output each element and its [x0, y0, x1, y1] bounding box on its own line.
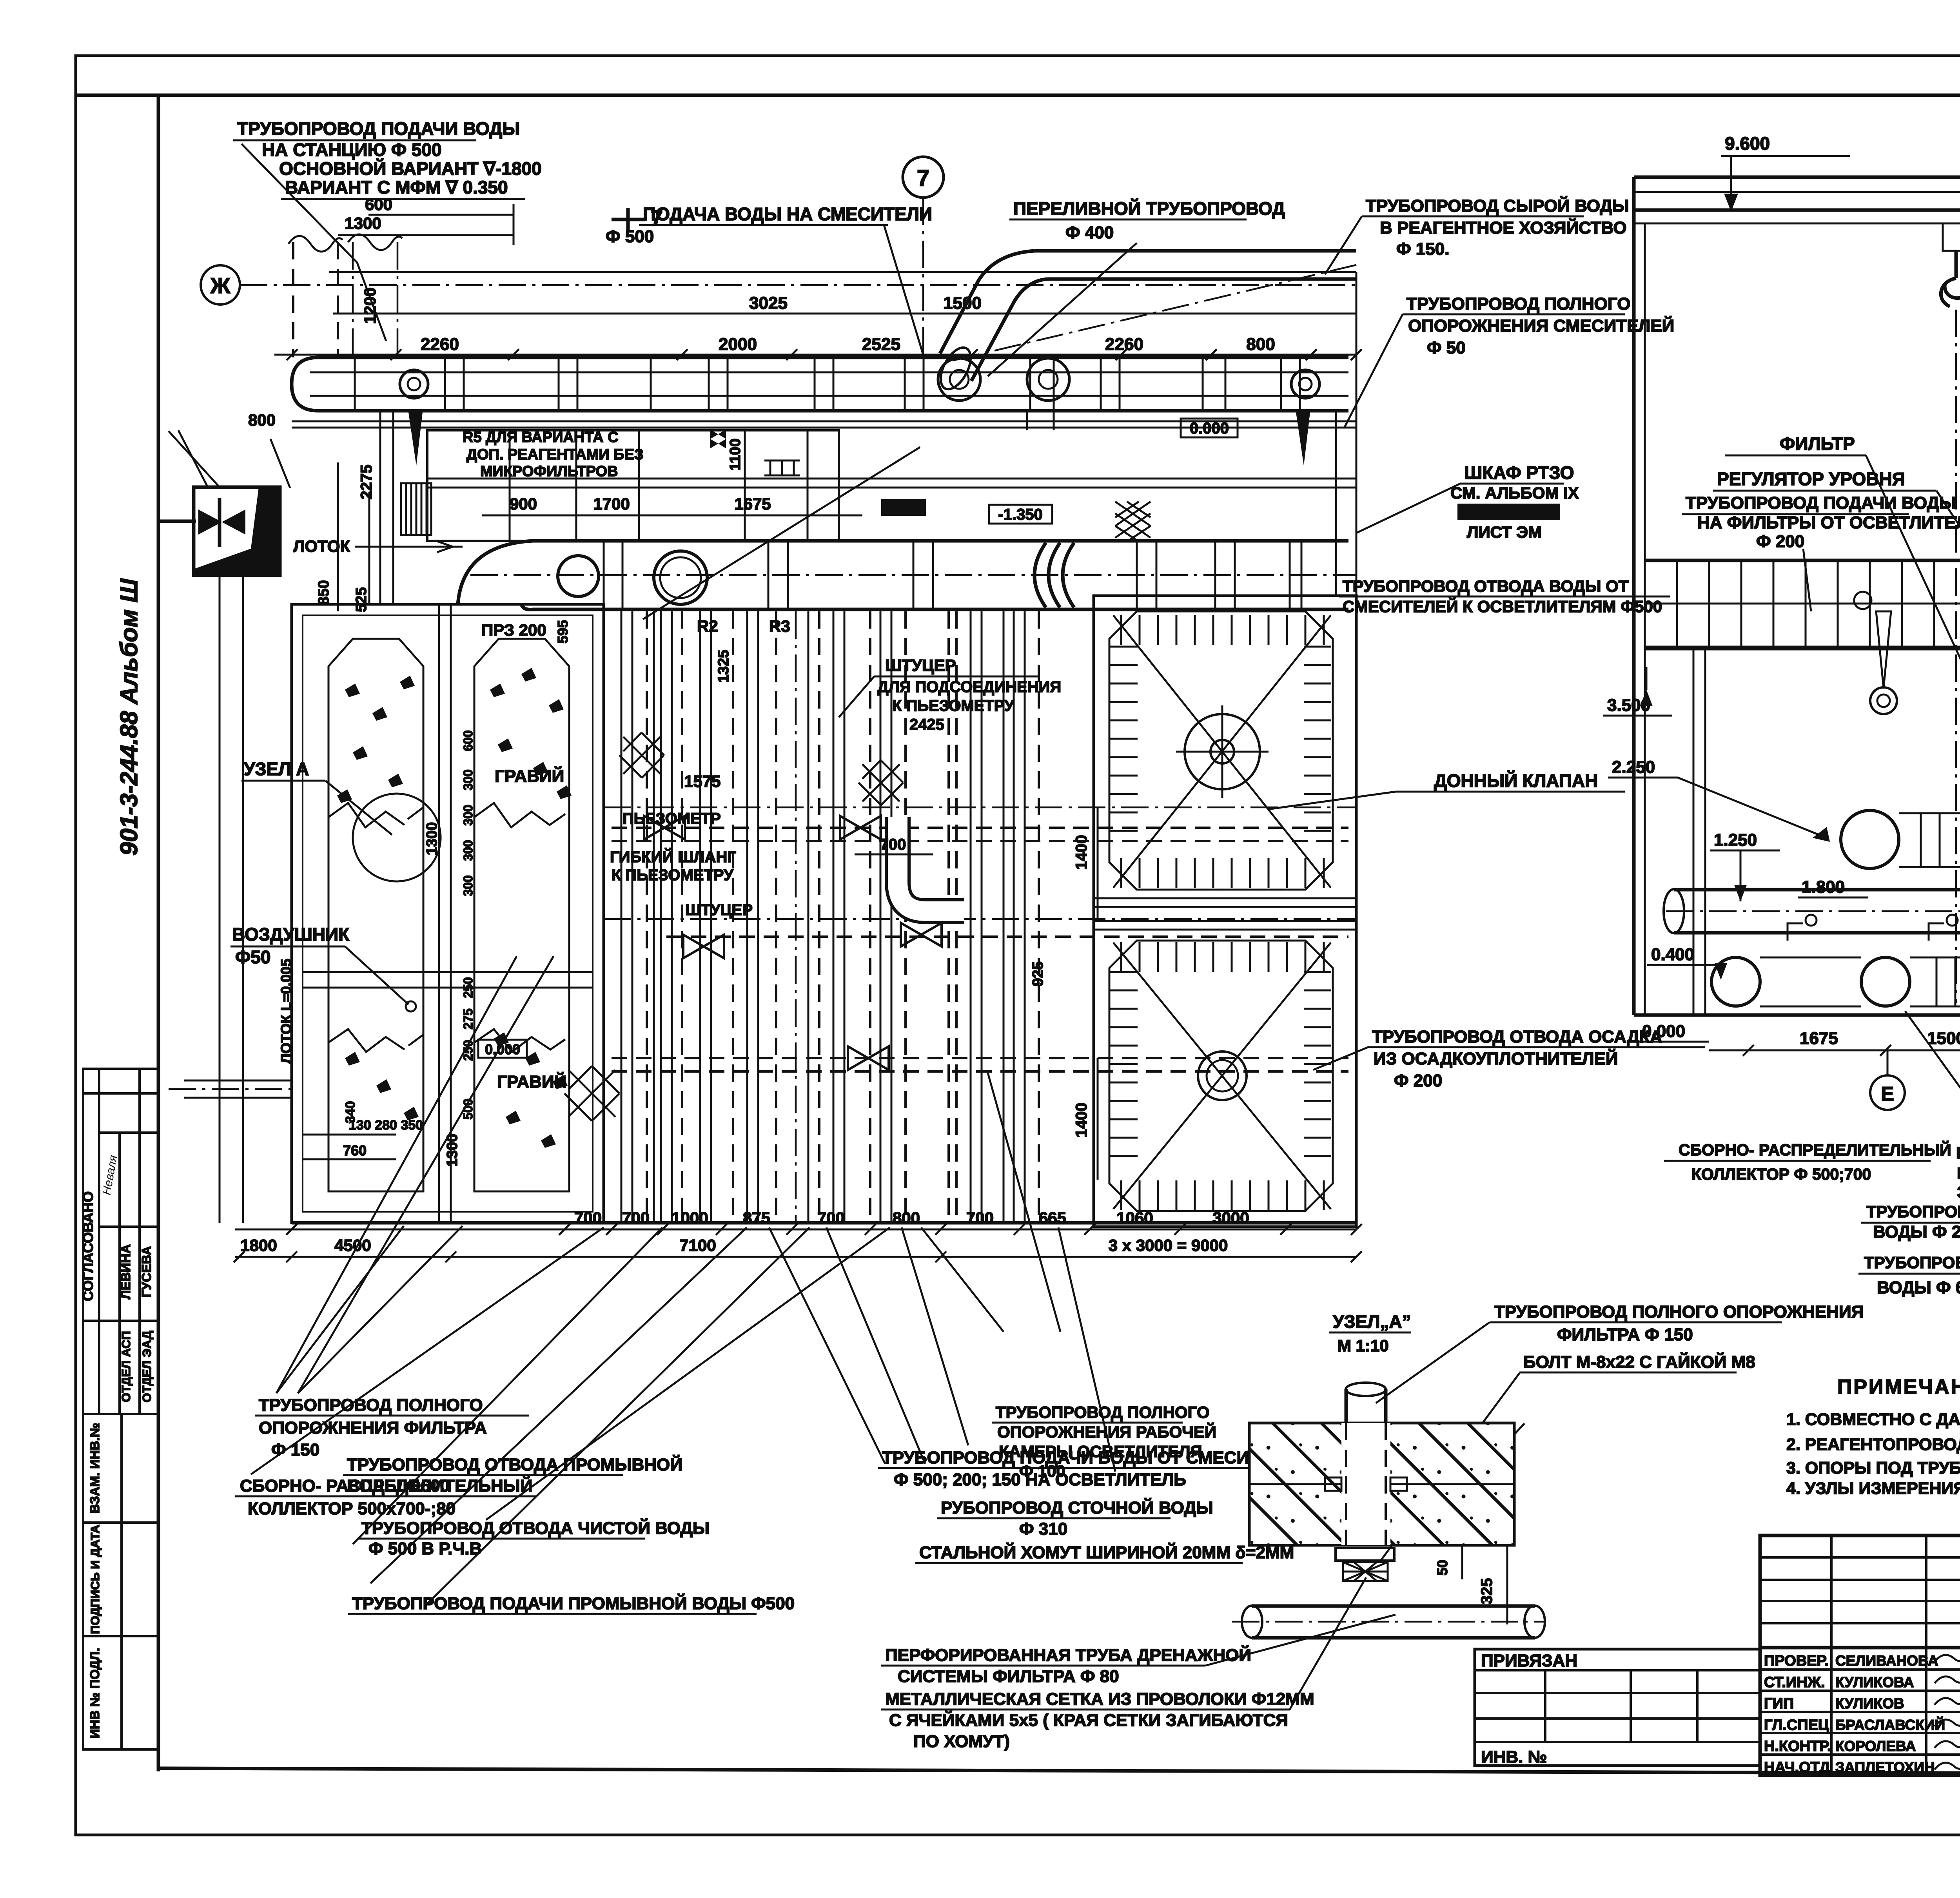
svg-text:ЛИСТ ЭМ: ЛИСТ ЭМ: [1467, 523, 1542, 541]
horizontal pipe level 1.8: [1674, 888, 1960, 892]
svg-text:900: 900: [510, 495, 537, 513]
svg-text:ФИЛЬТР: ФИЛЬТР: [1780, 433, 1855, 454]
grid circle + plumb arrow: [1854, 592, 1871, 609]
privyazan sub-table: [1475, 1649, 1760, 1766]
svg-text:КАМЕРЫ ОСВЕТЛИТЕЛЯ: КАМЕРЫ ОСВЕТЛИТЕЛЯ: [999, 1442, 1202, 1461]
svg-text:1.250: 1.250: [1714, 830, 1757, 850]
perelivnoy pipe (upper right diag): [1035, 249, 1356, 253]
svg-text:325: 325: [1478, 1578, 1495, 1604]
svg-text:3025: 3025: [749, 294, 788, 313]
pipe into pit + valve: [158, 520, 196, 523]
dark equipment rect: [881, 499, 926, 516]
vozdushnik stub pipe left: [184, 1080, 292, 1082]
svg-text:7: 7: [917, 165, 929, 191]
svg-text:700: 700: [622, 1209, 650, 1227]
svg-text:С ЯЧЕЙКАМИ 5х5 ( КРАЯ СЕТКИ: С ЯЧЕЙКАМИ 5х5 ( КРАЯ СЕТКИ ЗАГИБАЮТСЯ: [889, 1710, 1288, 1730]
band C circles: [558, 556, 599, 596]
svg-text:4. УЗЛЫ ИЗМЕРЕНИЯ РАСХОДОВ: 4. УЗЛЫ ИЗМЕРЕНИЯ РАСХОДОВ ВОДЫ НА СТАНЦ…: [1786, 1479, 1960, 1498]
svg-text:340: 340: [343, 1101, 358, 1124]
svg-text:700: 700: [966, 1209, 994, 1227]
svg-text:Ф 150: Ф 150: [271, 1440, 319, 1459]
wavy pipe break tops: [289, 236, 343, 252]
svg-text:ГЛ.СПЕЦ: ГЛ.СПЕЦ: [1764, 1717, 1829, 1733]
svg-text:Е: Е: [1881, 1083, 1894, 1105]
svg-text:ПЬЕЗОМЕТР: ПЬЕЗОМЕТР: [622, 810, 721, 827]
svg-text:ТРУБОПРОВОД ОТВОДА ПРОМЫВНОЙ: ТРУБОПРОВОД ОТВОДА ПРОМЫВНОЙ: [347, 1454, 682, 1474]
svg-text:НА СТАНЦИЮ Ф 500: НА СТАНЦИЮ Ф 500: [262, 140, 442, 160]
detail A concrete slab: [1249, 1423, 1514, 1545]
svg-text:ОСНОВНОЙ ВАРИАНТ ∇-1800: ОСНОВНОЙ ВАРИАНТ ∇-1800: [279, 158, 542, 179]
svg-text:ШТУЦЕР: ШТУЦЕР: [885, 656, 956, 674]
svg-text:1000: 1000: [671, 1209, 708, 1227]
svg-text:ПЕРЕЛИВНОЙ ТРУБОПРОВОД: ПЕРЕЛИВНОЙ ТРУБОПРОВОД: [1013, 198, 1285, 219]
hatch X patches: [619, 732, 664, 778]
flange circles on band A: [400, 370, 428, 398]
svg-text:ВОЗДУШНИК: ВОЗДУШНИК: [232, 924, 350, 944]
drainage pipe cylinder: [1252, 1604, 1535, 1608]
roof slab lines: [1634, 176, 1960, 179]
svg-text:-1.350: -1.350: [998, 506, 1042, 523]
risers between bands: [1026, 411, 1028, 430]
svg-text:300: 300: [461, 875, 475, 896]
svg-text:1400: 1400: [1073, 1103, 1090, 1138]
svg-text:ТРУБОПРОВОД ОТВОДА ПРОМЫВНОЙ: ТРУБОПРОВОД ОТВОДА ПРОМЫВНОЙ: [1864, 1253, 1960, 1272]
left frame leader lines: [169, 431, 220, 487]
leader to riser: [241, 144, 386, 341]
svg-text:250: 250: [461, 977, 475, 998]
filter collector channels: [303, 971, 593, 973]
svg-text:ОТДЕЛ АСП: ОТДЕЛ АСП: [119, 1331, 133, 1402]
svg-text:ТРУБОПРОВОД ПОДАЧИ ВОДЫ: ТРУБОПРОВОД ПОДАЧИ ВОДЫ: [1686, 493, 1956, 513]
svg-text:2275: 2275: [358, 465, 375, 500]
svg-text:ТРУБОПРОВОД ПОЛНОГО: ТРУБОПРОВОД ПОЛНОГО: [996, 1403, 1210, 1421]
pit leaders: [270, 439, 290, 488]
svg-text:130 280 350: 130 280 350: [349, 1118, 423, 1133]
valve small: [710, 430, 726, 448]
bottom dim chains: [235, 1229, 1356, 1231]
elevation box -1.350: [989, 505, 1052, 524]
svg-text:В РЕАГЕНТНОЕ ХОЗЯЙСТВО: В РЕАГЕНТНОЕ ХОЗЯЙСТВО: [1380, 218, 1627, 237]
svg-text:R3: R3: [769, 617, 790, 635]
svg-text:ТРУБОПРОВОД ПОЛНОГО: ТРУБОПРОВОД ПОЛНОГО: [1406, 294, 1631, 314]
svg-text:ТРУБОПРОВОД ПОДАЧИ ПРОМЫВНОЙ: ТРУБОПРОВОД ПОДАЧИ ПРОМЫВНОЙ ВОДЫ Ф500: [352, 1593, 795, 1613]
svg-text:СЕЛИВАНОВА: СЕЛИВАНОВА: [1835, 1653, 1938, 1669]
horizontal pipe runs dashed: [612, 827, 1348, 829]
svg-text:ПОДПИСЬ И ДАТА: ПОДПИСЬ И ДАТА: [88, 1525, 102, 1634]
svg-text:ЛОТОК: ЛОТОК: [293, 537, 350, 555]
svg-text:1060: 1060: [1116, 1209, 1153, 1227]
band A right end turns down: [1335, 411, 1337, 596]
svg-text:2260: 2260: [421, 335, 459, 354]
svg-text:Ф 200: Ф 200: [1394, 1071, 1442, 1090]
svg-text:700: 700: [817, 1209, 845, 1227]
ladder symbol small: [764, 460, 800, 475]
svg-text:ОПОРОЖНЕНИЯ ФИЛЬТРА: ОПОРОЖНЕНИЯ ФИЛЬТРА: [259, 1418, 487, 1438]
svg-text:СТАЛЬНОЙ ХОМУТ ШИРИНОЙ 20ММ: СТАЛЬНОЙ ХОМУТ ШИРИНОЙ 20ММ δ=2ММ: [919, 1542, 1294, 1562]
svg-text:ОТДЕЛ ЭАД: ОТДЕЛ ЭАД: [140, 1331, 154, 1402]
svg-text:ТРУБОПРОВОД ПОДАЧИ ВОДЫ: ТРУБОПРОВОД ПОДАЧИ ВОДЫ: [237, 118, 520, 139]
pipe band C: [533, 541, 1348, 609]
thick elbow pipe: [898, 817, 964, 911]
svg-text:1675: 1675: [734, 495, 771, 513]
detail circle Uzel A: [353, 794, 441, 881]
svg-text:ЛОТОК L=0.005: ЛОТОК L=0.005: [278, 959, 294, 1063]
leaders: [1936, 491, 1960, 619]
svg-text:ФИЛЬТРА Ф 150: ФИЛЬТРА Ф 150: [1557, 1325, 1693, 1344]
svg-text:700: 700: [880, 836, 906, 853]
plan: axis Zh circle: [201, 265, 240, 305]
left slab grid: [1645, 560, 1960, 647]
svg-text:Ж: Ж: [210, 273, 230, 298]
risers from band to filter: [379, 411, 381, 604]
ladder / lotok channel: [401, 483, 431, 535]
svg-text:1100: 1100: [727, 439, 744, 471]
svg-text:Ф 50: Ф 50: [1427, 338, 1466, 357]
axis E circle: [1870, 1075, 1905, 1110]
svg-text:300: 300: [461, 840, 475, 861]
svg-text:К ПЬЕЗОМЕТРУ: К ПЬЕЗОМЕТРУ: [892, 697, 1014, 714]
inner frame bottom line: [158, 1768, 1960, 1775]
break marks on slab edges: [1239, 1423, 1524, 1462]
svg-text:Ф 200: Ф 200: [1756, 532, 1804, 551]
svg-text:ГИБКИЙ ШЛАНГ: ГИБКИЙ ШЛАНГ: [610, 848, 736, 866]
svg-text:ИНВ № ПОДЛ.: ИНВ № ПОДЛ.: [87, 1648, 102, 1738]
svg-text:Ф 500: Ф 500: [606, 227, 654, 246]
svg-text:ИЗ ОСАДКОУПЛОТНИТЕЛЕЙ: ИЗ ОСАДКОУПЛОТНИТЕЛЕЙ: [1374, 1048, 1618, 1068]
nested arcs crossing: [1034, 543, 1074, 607]
svg-text:300: 300: [461, 805, 475, 825]
svg-text:ВОДЫ Ф600: ВОДЫ Ф600: [347, 1476, 450, 1496]
svg-text:ПРОВЕР.: ПРОВЕР.: [1764, 1653, 1829, 1669]
pipe through slab: [1345, 1423, 1347, 1545]
svg-text:2.250: 2.250: [1612, 758, 1655, 777]
svg-text:Н.КОНТР.: Н.КОНТР.: [1764, 1738, 1831, 1755]
svg-text:ЗАСЛОНКА ПРЗ200: ЗАСЛОНКА ПРЗ200: [1957, 1183, 1960, 1201]
plan bottom edge: [292, 1221, 1356, 1225]
svg-text:ДОННЫЙ КЛАПАН: ДОННЫЙ КЛАПАН: [1434, 770, 1598, 791]
svg-text:600: 600: [461, 730, 475, 751]
svg-text:НАЧ.ОТД: НАЧ.ОТД: [1764, 1759, 1830, 1776]
svg-text:Ф 100: Ф 100: [1019, 1462, 1065, 1480]
svg-text:ПЕРФОРИРОВАННАЯ ТРУБА ДРЕНАЖ: ПЕРФОРИРОВАННАЯ ТРУБА ДРЕНАЖНОЙ: [885, 1645, 1251, 1665]
main pipe band A: [292, 357, 1348, 411]
valves: [644, 816, 685, 839]
svg-text:800: 800: [1246, 335, 1275, 354]
svg-text:ГРАВИЙ: ГРАВИЙ: [495, 766, 564, 786]
elevation box 0.000: [1181, 419, 1238, 437]
svg-text:КУЛИКОВА: КУЛИКОВА: [1835, 1674, 1914, 1690]
svg-text:ОПОРОЖНЕНИЯ РАБОЧЕЙ: ОПОРОЖНЕНИЯ РАБОЧЕЙ: [997, 1422, 1216, 1441]
lines from pit down: [219, 575, 221, 1223]
main title block: [1760, 1535, 1960, 1775]
section cut flag 7 left: [612, 208, 645, 231]
svg-text:ПРЗ 200: ПРЗ 200: [481, 621, 546, 639]
svg-text:1300: 1300: [424, 822, 440, 856]
section mark 7 top: [903, 157, 944, 198]
svg-text:595: 595: [555, 620, 571, 644]
small flags on pipes: [1788, 923, 1944, 941]
svg-text:1575: 1575: [684, 772, 720, 790]
svg-text:1800: 1800: [240, 1236, 277, 1254]
svg-text:ПРИМЕЧАНИЕ: ПРИМЕЧАНИЕ: [1837, 1376, 1960, 1398]
riser pipes to station (dashed): [292, 242, 294, 357]
svg-text:3000: 3000: [1212, 1209, 1249, 1227]
svg-text:3 х 3000 = 9000: 3 х 3000 = 9000: [1109, 1236, 1228, 1254]
svg-text:ШКАФ РТЗО: ШКАФ РТЗО: [1464, 462, 1574, 483]
svg-text:4500: 4500: [334, 1236, 371, 1254]
svg-text:0.000: 0.000: [1642, 1022, 1685, 1041]
axis line Zh: [240, 284, 1356, 286]
big pipe circle level 2.250: [1841, 810, 1899, 868]
wall below band A: [292, 421, 1356, 422]
svg-text:9.600: 9.600: [1725, 133, 1770, 154]
svg-text:М 1:10: М 1:10: [1338, 1336, 1389, 1355]
mid beams: [1094, 897, 1356, 899]
svg-text:875: 875: [743, 1209, 770, 1227]
X braces: [1113, 615, 1331, 888]
comb hatching tank: [1121, 615, 1324, 645]
hatch patch rooms: [1115, 502, 1151, 542]
svg-text:Ф 310: Ф 310: [1019, 1519, 1067, 1539]
svg-text:ГИП: ГИП: [1764, 1695, 1794, 1712]
svg-text:1. СОВМЕСТНО С ДАННЫМ СМ. Л: 1. СОВМЕСТНО С ДАННЫМ СМ. ЛИСТЫ ТХ-1;8÷1…: [1786, 1410, 1960, 1429]
svg-text:ЗАПЛЕТОХИН: ЗАПЛЕТОХИН: [1835, 1759, 1935, 1775]
lower pipes with circles: [1711, 957, 1760, 1006]
svg-text:ПОДАЧА ВОДЫ НА СМЕСИТЕЛИ: ПОДАЧА ВОДЫ НА СМЕСИТЕЛИ: [643, 204, 932, 224]
flange ticks on band A: [354, 357, 356, 411]
svg-text:3. ОПОРЫ ПОД ТРУБОПРОВОДЫ С: 3. ОПОРЫ ПОД ТРУБОПРОВОДЫ СМ. ЛИСТ КН:25: [1786, 1459, 1960, 1477]
elevation 0.000 at filter: [478, 1040, 527, 1058]
svg-text:800: 800: [893, 1209, 920, 1227]
svg-text:2. РЕАГЕНТОПРОВОДЫ СМ ЛИСТ: 2. РЕАГЕНТОПРОВОДЫ СМ ЛИСТ ТХ-16: [1786, 1435, 1960, 1454]
svg-text:УЗЕЛ А: УЗЕЛ А: [244, 759, 309, 779]
svg-text:ПРИВЯЗАН: ПРИВЯЗАН: [1481, 1651, 1577, 1670]
svg-text:ПОВОРОТНО-: ПОВОРОТНО-: [1956, 1144, 1960, 1162]
svg-text:ПО ХОМУТ): ПО ХОМУТ): [913, 1732, 1010, 1751]
svg-text:МИКРОФИЛЬТРОВ: МИКРОФИЛЬТРОВ: [480, 463, 618, 480]
pipe stub above slab: [1346, 1389, 1386, 1423]
mixers rooms block: [427, 430, 839, 541]
svg-text:ТРУБОПРОВОД ОТВОДА ЧИСТОЙ: ТРУБОПРОВОД ОТВОДА ЧИСТОЙ: [1866, 1202, 1960, 1221]
svg-text:ЛЕВИНА: ЛЕВИНА: [118, 1244, 133, 1299]
filter tank walls below slab: [1693, 649, 1695, 1015]
svg-text:2000: 2000: [719, 335, 757, 354]
svg-text:925: 925: [1030, 961, 1046, 986]
obvodnoy leader diagonal: [643, 447, 920, 619]
svg-text:1400: 1400: [1073, 835, 1090, 870]
svg-text:Ф 400: Ф 400: [1065, 223, 1114, 242]
filter block outer: [292, 604, 604, 1223]
svg-text:РУБОПРОВОД СТОЧНОЙ ВОДЫ: РУБОПРОВОД СТОЧНОЙ ВОДЫ: [941, 1497, 1213, 1517]
svg-text:700: 700: [574, 1209, 602, 1227]
svg-text:СБОРНО- РАСПРЕДЕЛИТЕЛЬНЫЙ: СБОРНО- РАСПРЕДЕЛИТЕЛЬНЫЙ: [1679, 1141, 1951, 1159]
svg-text:0.000: 0.000: [1190, 420, 1229, 437]
svg-text:50: 50: [1434, 1560, 1450, 1575]
svg-text:ТРУБОПРОВОД ОТВОДА ОСАДКА: ТРУБОПРОВОД ОТВОДА ОСАДКА: [1372, 1027, 1662, 1046]
svg-text:1675: 1675: [1800, 1029, 1838, 1048]
svg-text:КУЛИКОВ: КУЛИКОВ: [1835, 1695, 1904, 1711]
anchor bolts in joint: [1325, 1477, 1407, 1491]
svg-text:БОЛТ М-8х22 С ГАЙКОЙ М8: БОЛТ М-8х22 С ГАЙКОЙ М8: [1523, 1352, 1755, 1372]
svg-text:2425: 2425: [909, 716, 944, 733]
middle verticals cluster: [621, 611, 622, 1223]
inner frame left line: [157, 95, 160, 1771]
flow arrows (solid teardrops): [408, 412, 423, 466]
svg-text:1.800: 1.800: [1802, 877, 1845, 897]
svg-text:ВОДЫ Ф 600: ВОДЫ Ф 600: [1877, 1278, 1960, 1297]
svg-text:ТРУБОПРОВОД ПОЛНОГО ОПОРОЖНЕН: ТРУБОПРОВОД ПОЛНОГО ОПОРОЖНЕНИЯ: [1494, 1302, 1864, 1322]
svg-text:СМ. АЛЬБОМ IX: СМ. АЛЬБОМ IX: [1450, 484, 1579, 502]
floor line: [1634, 1013, 1960, 1017]
svg-text:ДОП. РЕАГЕНТАМИ БЕЗ: ДОП. РЕАГЕНТАМИ БЕЗ: [466, 446, 644, 463]
clamp below slab: [1336, 1548, 1394, 1561]
stamp column table: [83, 1069, 158, 1749]
svg-text:ТРУБОПРОВОД ПОЛНОГО: ТРУБОПРОВОД ПОЛНОГО: [259, 1396, 483, 1415]
wall line top: [329, 271, 1356, 273]
svg-text:СМЕСИТЕЛЕЙ К ОСВЕТЛИТЕЛЯМ Ф: СМЕСИТЕЛЕЙ К ОСВЕТЛИТЕЛЯМ Ф500: [1343, 597, 1662, 616]
svg-text:760: 760: [343, 1142, 367, 1158]
center nozzles: [1185, 714, 1260, 789]
svg-text:СОГЛАСОВАНО: СОГЛАСОВАНО: [80, 1191, 96, 1301]
svg-text:0.400: 0.400: [1651, 945, 1694, 964]
svg-text:ВАРИАНТ С МФМ ∇ 0.350: ВАРИАНТ С МФМ ∇ 0.350: [285, 177, 508, 198]
svg-text:525: 525: [353, 587, 370, 612]
svg-text:КОЛЛЕКТОР 500х700-;80: КОЛЛЕКТОР 500х700-;80: [248, 1499, 456, 1518]
svg-text:1200: 1200: [361, 287, 379, 324]
svg-text:800: 800: [248, 411, 276, 429]
svg-text:1500: 1500: [1927, 1029, 1960, 1048]
svg-text:850: 850: [316, 580, 332, 605]
svg-text:ИНВ. №: ИНВ. №: [1481, 1748, 1547, 1767]
svg-text:УЗЕЛ„А”: УЗЕЛ„А”: [1333, 1311, 1411, 1332]
left wall: [1632, 177, 1636, 1015]
svg-text:665: 665: [1039, 1209, 1066, 1227]
wall line across rooms: [427, 478, 1356, 480]
svg-text:К ПЬЕЗОМЕТРУ: К ПЬЕЗОМЕТРУ: [612, 867, 734, 884]
svg-text:2525: 2525: [862, 335, 900, 354]
bottom dim chain: [1709, 1050, 1960, 1051]
wavy break lines: [328, 803, 423, 827]
svg-text:Ф50: Ф50: [235, 947, 270, 967]
svg-text:ВЗАМ. ИНВ.№: ВЗАМ. ИНВ.№: [87, 1423, 102, 1513]
svg-text:РЕГУЛИРУЮЩАЯ: РЕГУЛИРУЮЩАЯ: [1957, 1164, 1960, 1182]
inner frame top line: [76, 94, 1960, 97]
svg-text:1300: 1300: [345, 214, 381, 232]
svg-text:ВОДЫ Ф 200: ВОДЫ Ф 200: [1873, 1222, 1960, 1242]
svg-text:7100: 7100: [679, 1236, 716, 1254]
svg-text:600: 600: [365, 195, 392, 214]
svg-text:КОРОЛЕВА: КОРОЛЕВА: [1835, 1738, 1916, 1754]
svg-text:ТРУБОПРОВОД СЫРОЙ ВОДЫ: ТРУБОПРОВОД СЫРОЙ ВОДЫ: [1366, 196, 1629, 216]
svg-text:Ф 500 В Р.Ч.В: Ф 500 В Р.Ч.В: [368, 1539, 482, 1558]
svg-text:ГРАВИЙ: ГРАВИЙ: [497, 1071, 566, 1091]
clarifier tank: [1094, 596, 1356, 1227]
svg-text:1325: 1325: [715, 650, 732, 683]
leader diagonals: [276, 1226, 404, 1393]
svg-text:ГУСЕВА: ГУСЕВА: [139, 1246, 154, 1297]
dim row 2 above band: [274, 354, 1356, 356]
svg-text:ШТУЦЕР: ШТУЦЕР: [685, 901, 753, 919]
svg-text:300: 300: [461, 769, 475, 790]
filter strips with gravel: [328, 639, 423, 1191]
svg-text:ДЛЯ ПОДСОЕДИНЕНИЯ: ДЛЯ ПОДСОЕДИНЕНИЯ: [877, 678, 1061, 696]
svg-text:ТРУБОПРОВОД ОТВОДА ЧИСТОЙ В: ТРУБОПРОВОД ОТВОДА ЧИСТОЙ ВОДЫ: [361, 1518, 710, 1538]
svg-text:1700: 1700: [593, 495, 630, 513]
svg-text:СИСТЕМЫ ФИЛЬТРА Ф 80: СИСТЕМЫ ФИЛЬТРА Ф 80: [898, 1667, 1119, 1686]
svg-text:СТ.ИНЖ.: СТ.ИНЖ.: [1764, 1674, 1825, 1691]
svg-text:Ф 150.: Ф 150.: [1396, 239, 1449, 259]
svg-text:2260: 2260: [1105, 335, 1143, 354]
svg-text:НА ФИЛЬТРЫ ОТ ОСВЕТЛИТЕЛЯ: НА ФИЛЬТРЫ ОТ ОСВЕТЛИТЕЛЯ: [1697, 513, 1960, 532]
crane hooks: [1943, 223, 1960, 251]
svg-text:275: 275: [461, 1008, 475, 1029]
svg-text:901-3-244.88 Альбом Ш: 901-3-244.88 Альбом Ш: [116, 578, 143, 856]
svg-text:КОЛЛЕКТОР Ф 500;700: КОЛЛЕКТОР Ф 500;700: [1691, 1165, 1871, 1183]
svg-text:R5 ДЛЯ ВАРИАНТА С: R5 ДЛЯ ВАРИАНТА С: [463, 429, 619, 446]
svg-text:ТРУБОПРОВОД ОТВОДА ВОДЫ ОТ: ТРУБОПРОВОД ОТВОДА ВОДЫ ОТ: [1343, 577, 1629, 595]
priyamok pit (dark): [194, 487, 280, 575]
svg-text:МЕТАЛЛИЧЕСКАЯ СЕТКА ИЗ ПРОВО: МЕТАЛЛИЧЕСКАЯ СЕТКА ИЗ ПРОВОЛОКИ Ф12ММ: [885, 1690, 1314, 1709]
dim row 1 above band: [333, 313, 1356, 315]
svg-text:БРАСЛАВСКИЙ: БРАСЛАВСКИЙ: [1835, 1717, 1945, 1733]
